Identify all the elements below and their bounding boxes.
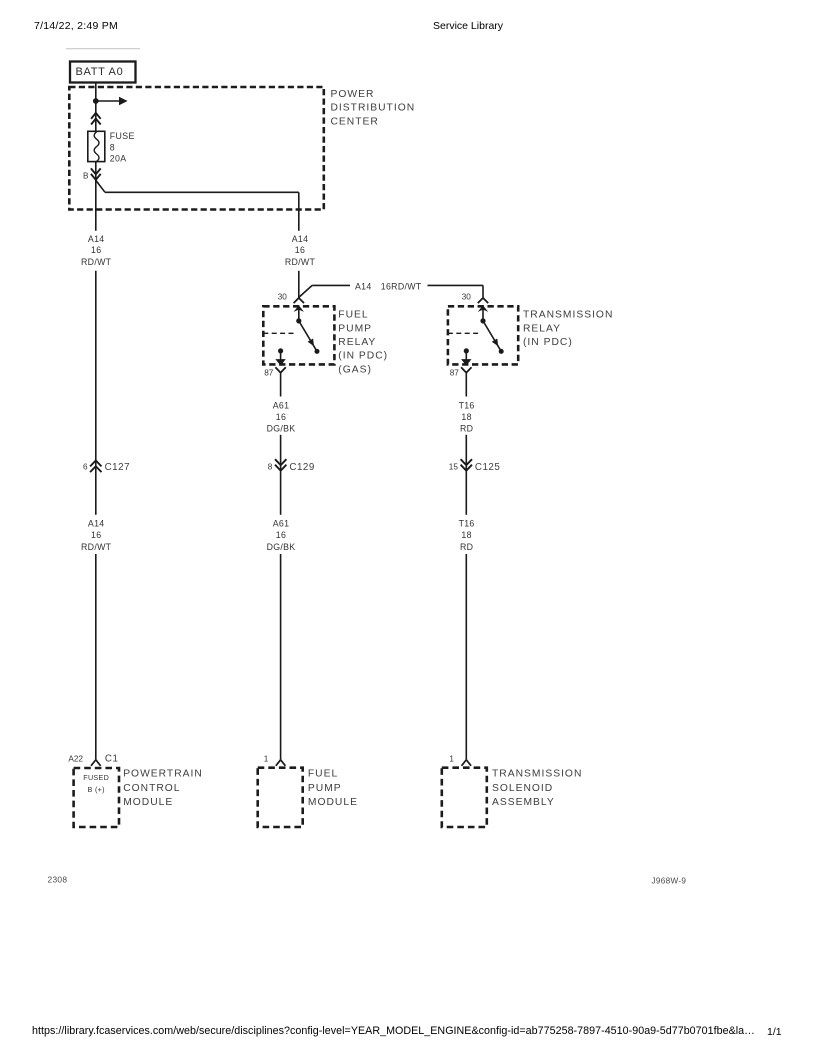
wire middle down to C129 (280, 435, 282, 515)
svg-text:POWER: POWER (331, 89, 375, 100)
branch diagonal from fuse output (96, 181, 105, 193)
transmission relay coil dashed line (448, 332, 481, 334)
fuel pump relay pin 87 dot (278, 348, 283, 353)
fuel pump relay common dot (296, 318, 301, 323)
fuel pump module connector Y (276, 760, 286, 766)
PCM connector Y (91, 760, 101, 766)
svg-text:J968W-9: J968W-9 (652, 877, 687, 886)
header title (433, 20, 503, 32)
svg-text:RD/WT: RD/WT (81, 257, 112, 267)
svg-text:MODULE: MODULE (308, 797, 358, 808)
svg-text:16: 16 (295, 245, 305, 255)
feed wire horizontal segment left (312, 284, 350, 286)
fuel pump module pin 1 label (264, 755, 269, 764)
header date (34, 20, 118, 32)
svg-text:16: 16 (91, 245, 101, 255)
feed wire label A14 16RD/WT (355, 281, 422, 291)
label POWER DISTRIBUTION CENTER (331, 89, 416, 127)
wire left long run to PCM (95, 554, 97, 760)
diagram code J968W-9 (652, 877, 687, 886)
transmission relay switch arm (483, 321, 504, 354)
svg-text:RELAY: RELAY (338, 337, 376, 348)
svg-text:RD: RD (460, 423, 473, 433)
wire label A14 16 RD/WT (middle) (285, 234, 316, 267)
wire label A61 16 DG/BK (lower) (267, 519, 296, 553)
powertrain control module dashed box (74, 768, 119, 827)
svg-text:18: 18 (461, 530, 471, 540)
fuel pump relay pin 30 terminal arrow (294, 305, 304, 318)
svg-text:DG/BK: DG/BK (267, 423, 296, 433)
svg-text:30: 30 (462, 292, 472, 301)
fuel pump relay coil dashed line (263, 332, 296, 334)
wire BATT A0 down to fuse (95, 83, 97, 131)
wire label T16 18 RD (lower) (459, 519, 475, 553)
transmission relay pin 30 label (462, 292, 472, 301)
footer url (32, 1025, 755, 1037)
svg-text:RELAY: RELAY (523, 323, 561, 334)
svg-text:PUMP: PUMP (308, 783, 342, 794)
wire right long run to solenoid assembly (465, 554, 467, 760)
feed wire horizontal segment right (428, 284, 484, 286)
svg-text:BATT A0: BATT A0 (76, 66, 124, 78)
fuel pump relay switch arm (299, 321, 320, 354)
scan artifact line (66, 48, 140, 50)
label FUEL PUMP MODULE (308, 769, 358, 808)
svg-text:A14: A14 (88, 519, 105, 529)
svg-text:1: 1 (449, 755, 454, 764)
svg-text:87: 87 (264, 369, 274, 378)
svg-text:RD/WT: RD/WT (285, 257, 316, 267)
svg-text:CONTROL: CONTROL (123, 783, 180, 794)
svg-text:16: 16 (91, 530, 101, 540)
PCM connector C1 label (105, 754, 119, 765)
junction dot (93, 98, 99, 104)
svg-text:FUEL: FUEL (308, 769, 338, 780)
svg-text:A14: A14 (355, 281, 372, 291)
svg-text:MODULE: MODULE (123, 797, 173, 808)
fuse 8 20A (88, 131, 105, 161)
wire label A61 16 DG/BK (upper) (267, 400, 296, 433)
svg-text:8: 8 (110, 142, 115, 152)
svg-text:16: 16 (276, 530, 286, 540)
svg-text:C125: C125 (475, 462, 500, 473)
svg-text:RD/WT: RD/WT (81, 542, 112, 552)
svg-text:A61: A61 (273, 519, 290, 529)
transmission relay pin 87 terminal arrow (461, 353, 471, 365)
connector C125 (449, 459, 501, 473)
wire middle long run to fuel pump module (280, 554, 282, 760)
svg-text:FUSE: FUSE (110, 131, 135, 141)
wire right down to C125 (465, 435, 467, 515)
transmission relay pin 87 connector chevron (461, 367, 471, 373)
svg-text:C127: C127 (105, 462, 130, 473)
svg-text:16RD/WT: 16RD/WT (381, 281, 422, 291)
svg-text:B (+): B (+) (88, 785, 105, 794)
svg-text:A61: A61 (273, 400, 290, 410)
wire transmission relay 87 down (465, 373, 467, 397)
transmission solenoid pin 1 label (449, 755, 454, 764)
svg-text:SOLENOID: SOLENOID (492, 783, 553, 794)
inline connector (double chevron up) above fuse (91, 113, 101, 125)
label FUEL PUMP RELAY (338, 310, 388, 376)
wire label A14 16 RD/WT (lower) (81, 519, 112, 553)
svg-text:1: 1 (264, 755, 269, 764)
inline connector (double chevron down) below fuse (91, 168, 101, 179)
battery feed box BATT A0 (70, 62, 136, 83)
svg-text:CENTER: CENTER (331, 116, 379, 127)
transmission relay common dot (480, 318, 485, 323)
svg-text:T16: T16 (459, 400, 475, 410)
svg-text:2308: 2308 (48, 875, 68, 885)
svg-text:8: 8 (268, 462, 273, 471)
wire fuel pump relay 87 down (280, 373, 282, 397)
svg-text:ASSEMBLY: ASSEMBLY (492, 797, 555, 808)
label POWERTRAIN CONTROL MODULE (123, 769, 203, 808)
fuel pump relay dashed box (263, 306, 334, 364)
PCM pin A22 label (68, 755, 83, 764)
svg-text:20A: 20A (110, 154, 127, 164)
svg-text:(IN PDC): (IN PDC) (338, 351, 388, 362)
fuel pump relay pin 87 label (264, 369, 274, 378)
fuel pump relay pin 87 terminal arrow (275, 353, 285, 365)
svg-text:(GAS): (GAS) (338, 364, 372, 375)
fuel pump relay pin 30 label (278, 292, 288, 301)
transmission solenoid assembly dashed box (442, 768, 487, 827)
power distribution center dashed box (69, 87, 323, 210)
svg-text:C1: C1 (105, 754, 119, 765)
svg-text:A14: A14 (88, 234, 105, 244)
svg-text:DISTRIBUTION: DISTRIBUTION (331, 103, 416, 114)
transmission relay pin 87 dot (464, 348, 469, 353)
wire middle down to relay pin 30 (298, 271, 300, 298)
transmission relay pin 30 connector chevron (478, 298, 488, 303)
label TRANSMISSION RELAY (523, 310, 613, 348)
fuse value label (110, 131, 135, 164)
connector C127 (83, 461, 130, 474)
fuel pump relay pin 30 connector chevron (294, 298, 304, 303)
svg-text:POWERTRAIN: POWERTRAIN (123, 769, 203, 780)
branch diagonal to transmission feed (299, 285, 312, 297)
feed arrow to right (96, 97, 128, 106)
svg-text:DG/BK: DG/BK (267, 542, 296, 552)
svg-text:FUSED: FUSED (83, 773, 109, 782)
branch vertical wire down out of PDC (298, 192, 300, 231)
transmission relay pin 30 terminal arrow (478, 305, 488, 318)
svg-text:RD: RD (460, 542, 473, 552)
branch horizontal wire inside PDC (105, 191, 299, 193)
svg-text:C129: C129 (289, 462, 314, 473)
wire left branch down to label gap (95, 180, 97, 231)
svg-text:PUMP: PUMP (338, 323, 372, 334)
fuel pump relay pin 87 connector chevron (275, 367, 285, 373)
feed wire drop to transmission relay (482, 285, 484, 297)
wire fuse to chevron (95, 162, 97, 181)
svg-text:T16: T16 (459, 519, 475, 529)
transmission relay pin 87 label (450, 369, 460, 378)
svg-text:16: 16 (276, 412, 286, 422)
wire left A down to C127 (95, 271, 97, 515)
svg-text:A14: A14 (292, 234, 309, 244)
svg-text:(IN PDC): (IN PDC) (523, 337, 573, 348)
svg-text:87: 87 (450, 369, 460, 378)
connector C129 (268, 459, 315, 473)
transmission solenoid connector Y (462, 760, 472, 766)
pin B label (83, 172, 89, 181)
diagram number 2308 (48, 875, 68, 885)
svg-text:18: 18 (461, 412, 471, 422)
svg-text:FUEL: FUEL (338, 310, 368, 321)
label TRANSMISSION SOLENOID ASSEMBLY (492, 769, 582, 808)
svg-text:6: 6 (83, 462, 88, 471)
svg-text:A22: A22 (68, 755, 83, 764)
transmission relay dashed box (448, 306, 518, 364)
svg-text:30: 30 (278, 292, 288, 301)
svg-text:B: B (83, 172, 89, 181)
wire label A14 16 RD/WT (left) (81, 234, 112, 267)
fuel pump module dashed box (258, 768, 303, 827)
footer page number (767, 1026, 782, 1038)
svg-text:15: 15 (449, 462, 459, 471)
svg-text:TRANSMISSION: TRANSMISSION (523, 310, 613, 321)
wire label T16 18 RD (upper) (459, 400, 475, 433)
PCM internal label FUSED B(+) (83, 773, 109, 794)
svg-text:TRANSMISSION: TRANSMISSION (492, 769, 582, 780)
